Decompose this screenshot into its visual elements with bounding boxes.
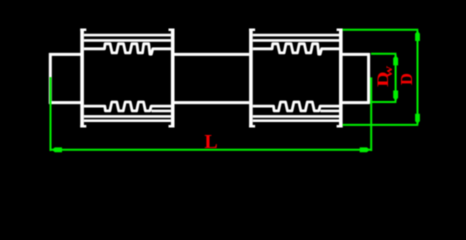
bellows root line tail unit1	[151, 110, 171, 113]
right pipe bottom line	[343, 101, 370, 104]
right pipe end cap	[367, 53, 370, 104]
bellows squiggle bottom unit2	[253, 102, 339, 111]
svg-text:D: D	[397, 73, 416, 85]
bellows root line tail unit2	[320, 110, 339, 113]
dimension D line	[417, 31, 419, 125]
dimension D arrow down	[415, 114, 420, 124]
left pipe top line	[49, 53, 81, 56]
bottom inner shell line unit2	[253, 115, 339, 118]
bottom outer shell line unit2	[253, 119, 339, 122]
left pipe end cap	[49, 53, 52, 104]
dimension Dw arrow up	[393, 55, 398, 65]
top inner shell line unit1	[84, 39, 171, 42]
middle pipe top line	[174, 53, 249, 56]
dimension D arrow up	[415, 31, 420, 41]
dimension Dw arrow down	[393, 91, 398, 101]
top outer shell line unit2	[253, 34, 339, 37]
F1 left flange	[80, 29, 86, 128]
dimension L arrow right	[360, 147, 370, 152]
bellows squiggle top unit1	[84, 44, 171, 54]
middle pipe bottom line	[174, 101, 249, 104]
F1 right flange	[169, 29, 175, 128]
dimension Dw extension line bottom	[371, 101, 396, 103]
left pipe bottom line	[49, 101, 81, 104]
dimension Dw extension line top	[371, 53, 396, 55]
dimension D extension line bottom	[343, 124, 419, 126]
bellows squiggle top unit2	[253, 44, 339, 54]
bellows squiggle bottom unit1	[84, 102, 171, 111]
top inner shell line unit2	[253, 39, 339, 42]
dimension D extension line top	[343, 29, 419, 31]
F2 right flange	[337, 29, 343, 128]
dimension L extension line left	[50, 77, 52, 151]
dimension L arrow left	[52, 147, 62, 152]
dimension L line	[51, 149, 372, 151]
dimension L extension line right	[370, 77, 372, 151]
dimension Dw line	[395, 55, 397, 102]
right pipe top line	[343, 53, 370, 56]
svg-text:L: L	[204, 131, 217, 153]
F2 left flange	[249, 29, 255, 128]
top outer shell line unit1	[84, 34, 171, 37]
bottom outer shell line unit1	[84, 119, 171, 122]
bottom inner shell line unit1	[84, 115, 171, 118]
